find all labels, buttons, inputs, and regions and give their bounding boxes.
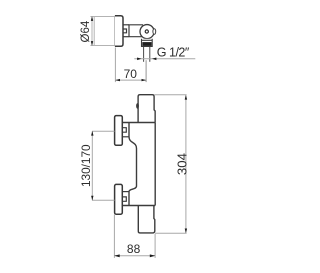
nut top edge [142,39,153,41]
G 1/2 dimension line [134,58,195,60]
70 dimension line [115,79,146,81]
body bottom edge [123,205,156,207]
130/170 arrows [91,131,93,200]
extension line top (Ø64) [90,16,94,18]
lower knob [115,184,123,214]
side notch on circle [153,29,156,35]
extension line bottom (Ø64) [90,45,94,47]
body top edge [123,122,156,124]
svg-text:Ø64: Ø64 [80,20,92,42]
G 1/2 arrows [137,58,156,61]
88 dimension line [114,255,155,257]
130/170 dimension line [91,131,93,200]
lower connector ridges (stepped cone) [123,192,129,202]
dimension arrows Ø64 [91,16,93,45]
130/170 dimension extension lines [92,131,115,200]
dimension line Ø64 [91,17,93,46]
304 dimension line [185,95,187,233]
valve body (top view) behind circle [129,25,143,37]
outlet circle (top view) [140,25,154,39]
connector ridges (top view, stepped cone) [123,25,129,37]
svg-text:130/170: 130/170 [79,144,93,187]
union nut outline [142,39,153,47]
88 dimension extension lines [114,215,155,258]
center dot [145,30,148,33]
body left profile (waist with fillets) [129,123,137,206]
handle face line [114,17,116,46]
svg-text:G 1/2″: G 1/2″ [157,46,190,60]
main body outline [123,123,156,206]
svg-text:304: 304 [174,153,189,175]
88 arrows [114,254,155,257]
handle cap (square left, rounded right) [115,16,123,47]
upper knob [115,116,123,146]
bottom outlet section [138,206,155,233]
handle cylinder Ø64 (thin light outline) [90,17,114,46]
clip bump on pipe [136,103,139,109]
304 arrows [185,95,187,233]
70 dimension: extension line from handle face [114,48,116,83]
upper connector ridges (stepped cone) [123,128,129,137]
body right edge [154,123,156,206]
threaded band (dark fill) [142,42,151,46]
pipe stubs below nut (G 1/2 extension) [144,47,150,62]
top inlet pipe [138,95,155,123]
304 dimension extension lines [154,95,186,234]
70 arrows [115,79,146,81]
70 dimension: axis extension line [145,60,147,82]
svg-text:70: 70 [124,67,138,81]
svg-text:88: 88 [127,242,141,256]
